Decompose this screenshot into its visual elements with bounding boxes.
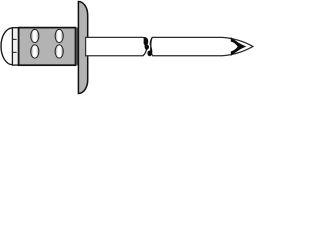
break blob lower (filled comma on right piece)	[147, 44, 152, 56]
neck tick lower	[13, 51, 17, 53]
neck tick upper	[13, 38, 17, 40]
gap band between body and flange	[76, 28, 78, 66]
break blob middle (filled teardrop on left piece)	[145, 44, 149, 49]
dart mark in tip	[231, 37, 247, 56]
mandrel head dome (left arc)	[1, 28, 12, 65]
slot 2 (bottom-left)	[31, 45, 39, 58]
break blob upper (filled comma on left piece)	[143, 37, 148, 45]
mandrel left segment	[86, 37, 144, 55]
slot 3 (top-right)	[55, 29, 63, 42]
rivet body	[19, 28, 76, 66]
flange (set head)	[78, 1, 87, 93]
mandrel right segment with pointed tip	[151, 37, 253, 55]
break concave edge of right piece	[150, 37, 152, 44]
slot 4 (bottom-right)	[55, 45, 63, 58]
slot 1 (top-left)	[31, 29, 39, 42]
break S-edge thin curve of left segment	[143, 46, 147, 56]
mandrel head neck	[12, 28, 18, 65]
